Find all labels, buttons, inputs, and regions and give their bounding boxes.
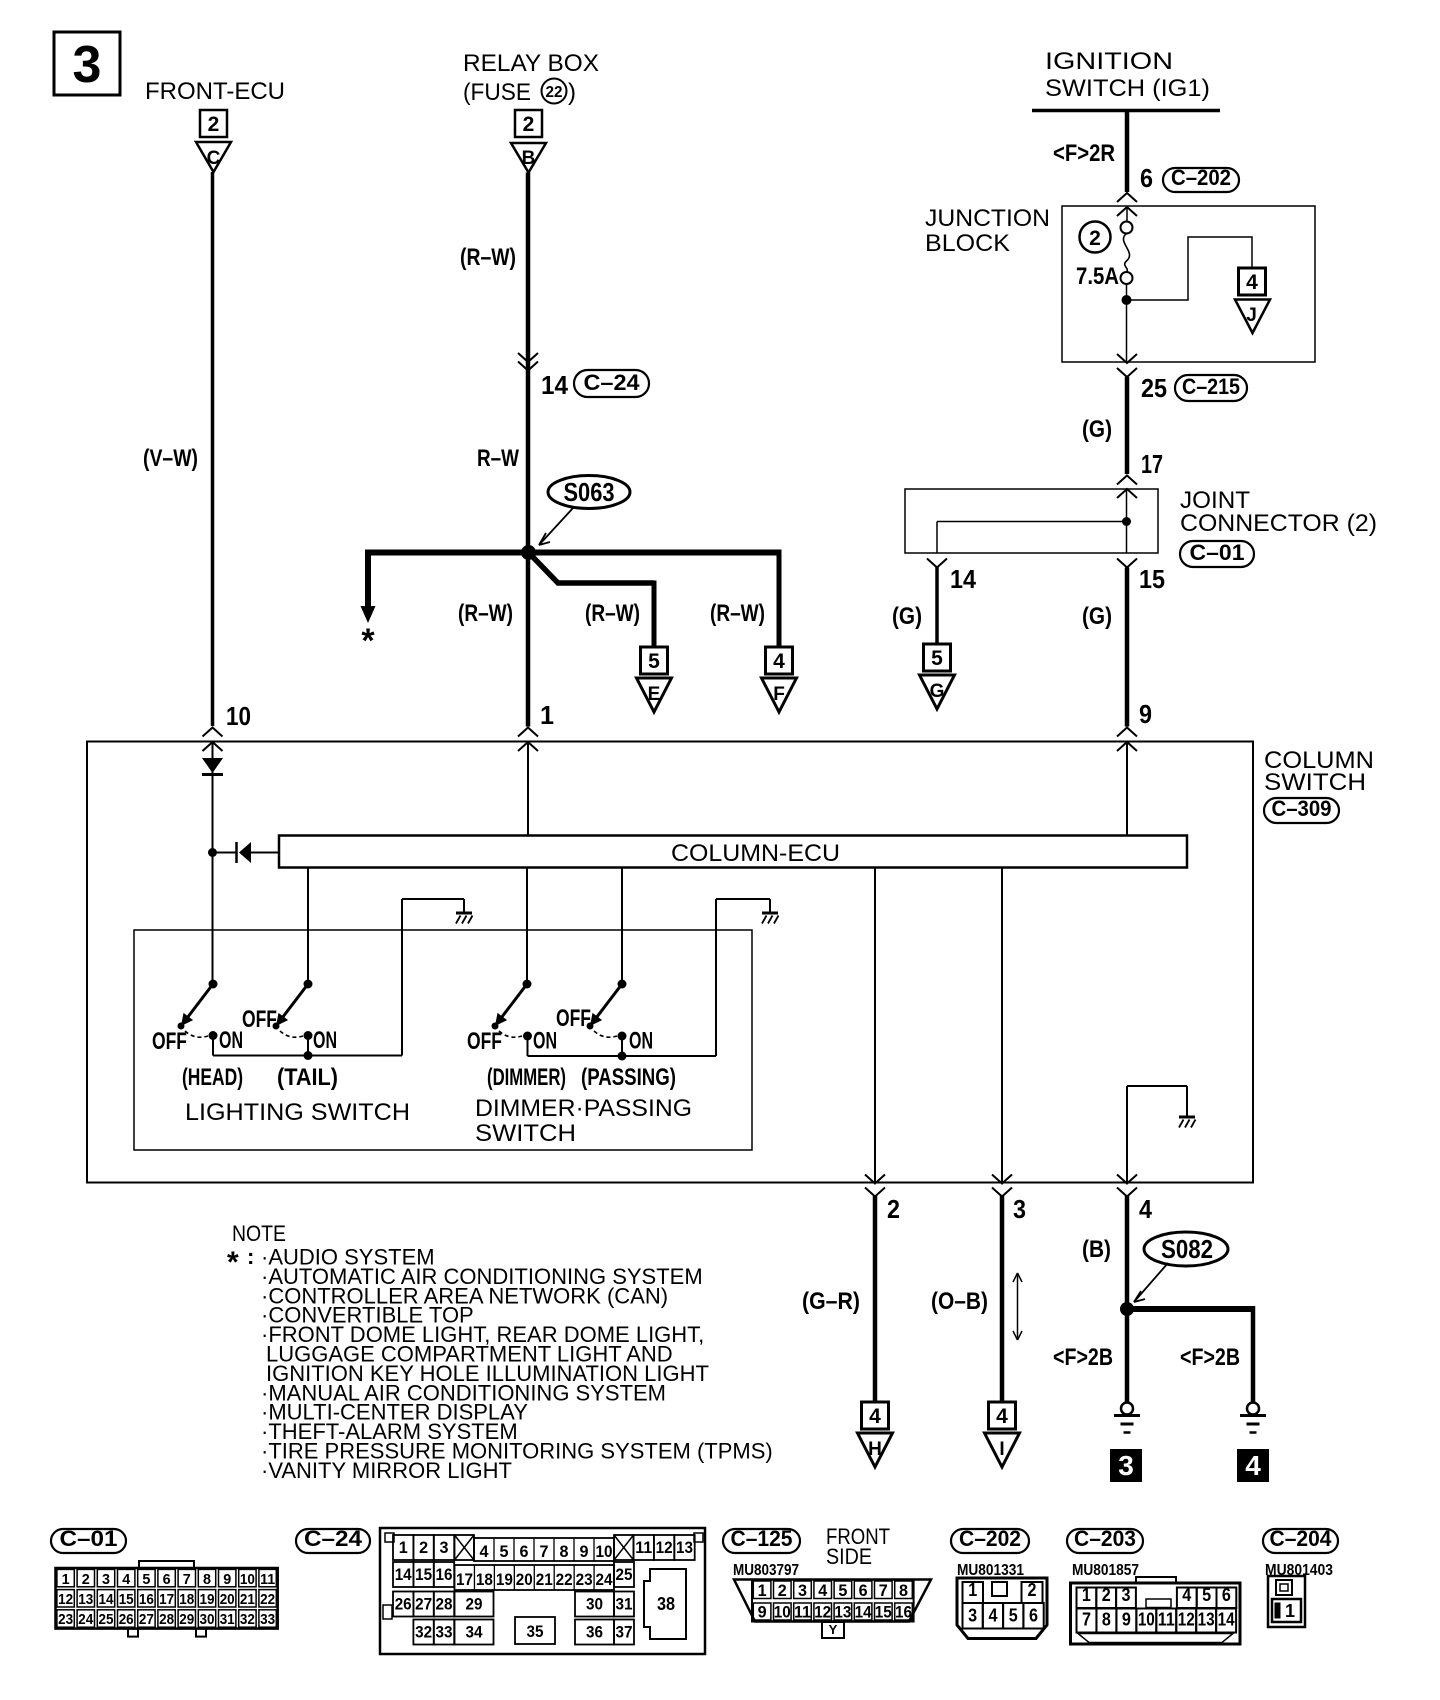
svg-text:J: J bbox=[1246, 305, 1257, 326]
svg-text:6: 6 bbox=[1140, 163, 1153, 193]
svg-text:8: 8 bbox=[1102, 1610, 1111, 1630]
svg-text:4: 4 bbox=[773, 650, 785, 673]
svg-text:11: 11 bbox=[1158, 1610, 1175, 1630]
svg-text:27: 27 bbox=[415, 1595, 432, 1614]
svg-text:8: 8 bbox=[560, 1542, 569, 1561]
svg-text:*: * bbox=[361, 622, 375, 660]
svg-text:30: 30 bbox=[200, 1611, 215, 1628]
svg-text:5: 5 bbox=[142, 1571, 150, 1588]
svg-text:3: 3 bbox=[968, 1606, 977, 1626]
svg-text:(R–W): (R–W) bbox=[458, 600, 513, 627]
svg-text:18: 18 bbox=[179, 1591, 194, 1608]
svg-text:S063: S063 bbox=[564, 477, 615, 507]
svg-text:C–203: C–203 bbox=[1074, 1526, 1136, 1551]
svg-text:): ) bbox=[568, 79, 576, 106]
svg-text:5: 5 bbox=[1009, 1606, 1018, 1626]
svg-text:6: 6 bbox=[1029, 1606, 1038, 1626]
svg-text:SWITCH (IG1): SWITCH (IG1) bbox=[1045, 75, 1210, 102]
svg-text:37: 37 bbox=[616, 1623, 633, 1642]
svg-text:14: 14 bbox=[1218, 1610, 1235, 1630]
svg-text:1: 1 bbox=[758, 1581, 767, 1600]
svg-text:Y: Y bbox=[829, 1622, 838, 1637]
svg-text:10: 10 bbox=[226, 701, 251, 731]
svg-text:1: 1 bbox=[399, 1538, 408, 1557]
svg-text:(PASSING): (PASSING) bbox=[581, 1064, 676, 1091]
svg-text:33: 33 bbox=[260, 1611, 275, 1628]
svg-text:IGNITION: IGNITION bbox=[1045, 48, 1173, 75]
svg-text:3: 3 bbox=[73, 36, 102, 94]
svg-text:OFF: OFF bbox=[242, 1006, 277, 1033]
svg-text:2: 2 bbox=[523, 113, 535, 136]
svg-text:4: 4 bbox=[122, 1571, 131, 1588]
svg-text:C–01: C–01 bbox=[60, 1526, 118, 1551]
svg-text:4: 4 bbox=[869, 1405, 881, 1428]
svg-text:16: 16 bbox=[895, 1603, 912, 1622]
svg-text:24: 24 bbox=[596, 1570, 613, 1589]
svg-text:(B): (B) bbox=[1082, 1236, 1111, 1263]
svg-text:3: 3 bbox=[440, 1538, 449, 1557]
svg-text:BLOCK: BLOCK bbox=[925, 230, 1010, 257]
svg-text:14: 14 bbox=[950, 564, 976, 594]
svg-text:4: 4 bbox=[996, 1405, 1008, 1428]
svg-text:3: 3 bbox=[1118, 1450, 1134, 1481]
svg-text:17: 17 bbox=[456, 1570, 473, 1589]
svg-text:(HEAD): (HEAD) bbox=[182, 1064, 243, 1091]
svg-text:C–202: C–202 bbox=[959, 1526, 1021, 1551]
svg-text:C–204: C–204 bbox=[1270, 1526, 1333, 1551]
svg-text:4: 4 bbox=[1246, 271, 1258, 294]
svg-text:7: 7 bbox=[540, 1542, 549, 1561]
svg-text:(TAIL): (TAIL) bbox=[277, 1064, 338, 1091]
svg-text:16: 16 bbox=[436, 1565, 453, 1584]
svg-text:16: 16 bbox=[139, 1591, 154, 1608]
svg-text:19: 19 bbox=[496, 1570, 513, 1589]
svg-text:B: B bbox=[522, 148, 536, 169]
svg-text:1: 1 bbox=[540, 700, 554, 730]
svg-text:31: 31 bbox=[616, 1595, 633, 1614]
svg-text:5: 5 bbox=[500, 1542, 509, 1561]
svg-text:2: 2 bbox=[778, 1581, 787, 1600]
svg-text:(R–W): (R–W) bbox=[710, 600, 765, 627]
svg-text:2: 2 bbox=[1089, 227, 1101, 250]
svg-text:20: 20 bbox=[220, 1591, 235, 1608]
svg-text:28: 28 bbox=[436, 1595, 453, 1614]
svg-text:5: 5 bbox=[838, 1581, 847, 1600]
svg-text:33: 33 bbox=[436, 1623, 453, 1642]
svg-text:21: 21 bbox=[536, 1570, 553, 1589]
svg-text:(R–W): (R–W) bbox=[460, 244, 516, 271]
svg-text:17: 17 bbox=[159, 1591, 174, 1608]
svg-text:13: 13 bbox=[1198, 1610, 1215, 1630]
svg-text:<F>2R: <F>2R bbox=[1053, 140, 1115, 167]
svg-text:MU801331: MU801331 bbox=[957, 1562, 1024, 1579]
svg-text:3: 3 bbox=[1122, 1585, 1131, 1605]
svg-text:4: 4 bbox=[1182, 1585, 1191, 1605]
svg-text:H: H bbox=[868, 1439, 882, 1460]
svg-text:21: 21 bbox=[240, 1591, 255, 1608]
svg-text:OFF: OFF bbox=[467, 1028, 502, 1055]
svg-text:23: 23 bbox=[576, 1570, 593, 1589]
svg-text:10: 10 bbox=[1138, 1610, 1155, 1630]
svg-text:4: 4 bbox=[988, 1606, 997, 1626]
svg-text:<F>2B: <F>2B bbox=[1053, 1344, 1113, 1371]
svg-text:23: 23 bbox=[58, 1611, 73, 1628]
svg-text:12: 12 bbox=[1178, 1610, 1195, 1630]
svg-text:DIMMER·PASSING: DIMMER·PASSING bbox=[475, 1095, 692, 1122]
svg-text:1: 1 bbox=[1285, 1601, 1295, 1621]
svg-text:5: 5 bbox=[1202, 1585, 1211, 1605]
svg-text:26: 26 bbox=[395, 1595, 412, 1614]
svg-text:18: 18 bbox=[476, 1570, 493, 1589]
svg-text:15: 15 bbox=[119, 1591, 134, 1608]
svg-text:(FUSE: (FUSE bbox=[463, 79, 531, 106]
svg-text:6: 6 bbox=[520, 1542, 529, 1561]
svg-text:27: 27 bbox=[139, 1611, 154, 1628]
svg-text:S082: S082 bbox=[1161, 1234, 1213, 1264]
svg-text:10: 10 bbox=[596, 1542, 613, 1561]
svg-text:14: 14 bbox=[395, 1565, 412, 1584]
svg-text:4: 4 bbox=[1245, 1450, 1261, 1481]
svg-text:1: 1 bbox=[1082, 1585, 1091, 1605]
svg-text:11: 11 bbox=[635, 1538, 652, 1557]
svg-text:8: 8 bbox=[899, 1581, 908, 1600]
svg-text:JUNCTION: JUNCTION bbox=[925, 205, 1050, 232]
svg-text:C–215: C–215 bbox=[1182, 374, 1240, 399]
svg-text:COLUMN-ECU: COLUMN-ECU bbox=[671, 840, 840, 867]
svg-text:22: 22 bbox=[546, 84, 563, 101]
svg-text:C–202: C–202 bbox=[1171, 165, 1231, 190]
svg-text:17: 17 bbox=[1141, 449, 1163, 479]
svg-text:25: 25 bbox=[99, 1611, 114, 1628]
svg-text:(V–W): (V–W) bbox=[143, 445, 198, 472]
svg-text:29: 29 bbox=[466, 1595, 483, 1614]
svg-text:(O–B): (O–B) bbox=[931, 1288, 988, 1315]
svg-text:6: 6 bbox=[1222, 1585, 1231, 1605]
svg-text:C–01: C–01 bbox=[1190, 540, 1245, 565]
svg-text:R–W: R–W bbox=[477, 445, 519, 472]
svg-text:OFF: OFF bbox=[556, 1005, 591, 1032]
svg-text:3: 3 bbox=[1013, 1194, 1026, 1224]
svg-text:5: 5 bbox=[931, 647, 943, 670]
svg-text:(R–W): (R–W) bbox=[585, 600, 640, 627]
svg-text:15: 15 bbox=[875, 1603, 892, 1622]
svg-text:15: 15 bbox=[415, 1565, 432, 1584]
svg-text:ON: ON bbox=[533, 1028, 557, 1055]
svg-text:9: 9 bbox=[758, 1603, 767, 1622]
svg-text:ON: ON bbox=[219, 1027, 243, 1054]
svg-text:C–24: C–24 bbox=[304, 1526, 363, 1551]
svg-text:C–309: C–309 bbox=[1272, 796, 1332, 821]
svg-text:35: 35 bbox=[527, 1622, 544, 1641]
svg-text:15: 15 bbox=[1139, 564, 1165, 594]
svg-text:2: 2 bbox=[1028, 1580, 1037, 1600]
svg-text:4: 4 bbox=[818, 1581, 828, 1600]
svg-text:31: 31 bbox=[220, 1611, 235, 1628]
svg-text:(G): (G) bbox=[1082, 416, 1112, 443]
svg-text:2: 2 bbox=[419, 1538, 428, 1557]
svg-text:12: 12 bbox=[656, 1538, 673, 1557]
svg-text:C–24: C–24 bbox=[584, 370, 641, 395]
svg-text:25: 25 bbox=[1141, 373, 1167, 403]
svg-text:ON: ON bbox=[629, 1028, 653, 1055]
svg-text:13: 13 bbox=[676, 1538, 693, 1557]
svg-text:MU801857: MU801857 bbox=[1072, 1562, 1139, 1579]
svg-text:7: 7 bbox=[183, 1571, 191, 1588]
svg-text:(G): (G) bbox=[1082, 603, 1112, 630]
svg-text:4: 4 bbox=[1139, 1194, 1152, 1224]
svg-text:14: 14 bbox=[541, 370, 569, 400]
svg-text:(G): (G) bbox=[892, 603, 922, 630]
svg-text:22: 22 bbox=[556, 1570, 573, 1589]
svg-text:CONNECTOR (2): CONNECTOR (2) bbox=[1180, 510, 1377, 537]
svg-text:G: G bbox=[930, 681, 945, 702]
svg-text:6: 6 bbox=[163, 1571, 171, 1588]
svg-text:14: 14 bbox=[855, 1603, 872, 1622]
svg-text:2: 2 bbox=[208, 113, 220, 136]
svg-text:LIGHTING SWITCH: LIGHTING SWITCH bbox=[185, 1099, 410, 1126]
svg-text:MU803797: MU803797 bbox=[733, 1562, 799, 1579]
svg-text:(G–R): (G–R) bbox=[802, 1288, 860, 1315]
svg-text:5: 5 bbox=[648, 650, 660, 673]
svg-text:C: C bbox=[207, 148, 221, 169]
svg-text:30: 30 bbox=[586, 1595, 603, 1614]
svg-text:C–125: C–125 bbox=[731, 1526, 793, 1551]
svg-text:RELAY BOX: RELAY BOX bbox=[463, 50, 599, 77]
svg-text:22: 22 bbox=[260, 1591, 275, 1608]
svg-text:SWITCH: SWITCH bbox=[475, 1120, 576, 1147]
svg-text:10: 10 bbox=[240, 1571, 255, 1588]
svg-text:36: 36 bbox=[586, 1623, 603, 1642]
svg-text:ON: ON bbox=[313, 1027, 337, 1054]
svg-text:7.5A: 7.5A bbox=[1076, 263, 1119, 290]
svg-text:8: 8 bbox=[203, 1571, 211, 1588]
svg-text:19: 19 bbox=[200, 1591, 215, 1608]
svg-text:29: 29 bbox=[179, 1611, 194, 1628]
svg-text:20: 20 bbox=[516, 1570, 533, 1589]
svg-text:2: 2 bbox=[1102, 1585, 1111, 1605]
svg-text:3: 3 bbox=[102, 1571, 110, 1588]
svg-text:13: 13 bbox=[834, 1603, 851, 1622]
svg-text:9: 9 bbox=[1139, 699, 1152, 729]
svg-text:26: 26 bbox=[119, 1611, 134, 1628]
svg-text:4: 4 bbox=[480, 1542, 490, 1561]
svg-text:·VANITY MIRROR LIGHT: ·VANITY MIRROR LIGHT bbox=[261, 1458, 512, 1483]
svg-text:I: I bbox=[999, 1439, 1004, 1460]
svg-text:*: * bbox=[227, 1246, 239, 1279]
svg-text:11: 11 bbox=[794, 1603, 811, 1622]
svg-text:SWITCH: SWITCH bbox=[1264, 769, 1366, 796]
svg-text:32: 32 bbox=[240, 1611, 255, 1628]
svg-text:9: 9 bbox=[580, 1542, 589, 1561]
svg-text:12: 12 bbox=[58, 1591, 73, 1608]
svg-text:7: 7 bbox=[879, 1581, 888, 1600]
svg-text:2: 2 bbox=[82, 1571, 90, 1588]
svg-text:1: 1 bbox=[62, 1571, 70, 1588]
svg-text:12: 12 bbox=[814, 1603, 831, 1622]
svg-text:14: 14 bbox=[99, 1591, 115, 1608]
svg-text:SIDE: SIDE bbox=[826, 1544, 872, 1569]
svg-text:11: 11 bbox=[260, 1571, 275, 1588]
svg-text:28: 28 bbox=[159, 1611, 174, 1628]
svg-text:34: 34 bbox=[466, 1623, 483, 1642]
svg-text:(DIMMER): (DIMMER) bbox=[487, 1064, 566, 1091]
svg-text:2: 2 bbox=[887, 1194, 900, 1224]
svg-text:7: 7 bbox=[1082, 1610, 1091, 1630]
svg-text:25: 25 bbox=[616, 1565, 633, 1584]
svg-text:1: 1 bbox=[968, 1580, 977, 1600]
svg-text:F: F bbox=[773, 684, 785, 705]
svg-text:10: 10 bbox=[774, 1603, 791, 1622]
svg-text:13: 13 bbox=[78, 1591, 93, 1608]
svg-text:32: 32 bbox=[415, 1623, 432, 1642]
svg-text:9: 9 bbox=[223, 1571, 231, 1588]
svg-text:9: 9 bbox=[1122, 1610, 1131, 1630]
svg-text:OFF: OFF bbox=[152, 1028, 187, 1055]
svg-text::: : bbox=[247, 1244, 254, 1269]
svg-text:<F>2B: <F>2B bbox=[1180, 1344, 1240, 1371]
svg-text:E: E bbox=[648, 684, 661, 705]
svg-text:6: 6 bbox=[859, 1581, 868, 1600]
svg-text:3: 3 bbox=[798, 1581, 807, 1600]
svg-text:NOTE: NOTE bbox=[232, 1221, 286, 1246]
svg-text:FRONT-ECU: FRONT-ECU bbox=[145, 78, 285, 105]
svg-text:38: 38 bbox=[657, 1594, 675, 1614]
svg-text:24: 24 bbox=[78, 1611, 94, 1628]
